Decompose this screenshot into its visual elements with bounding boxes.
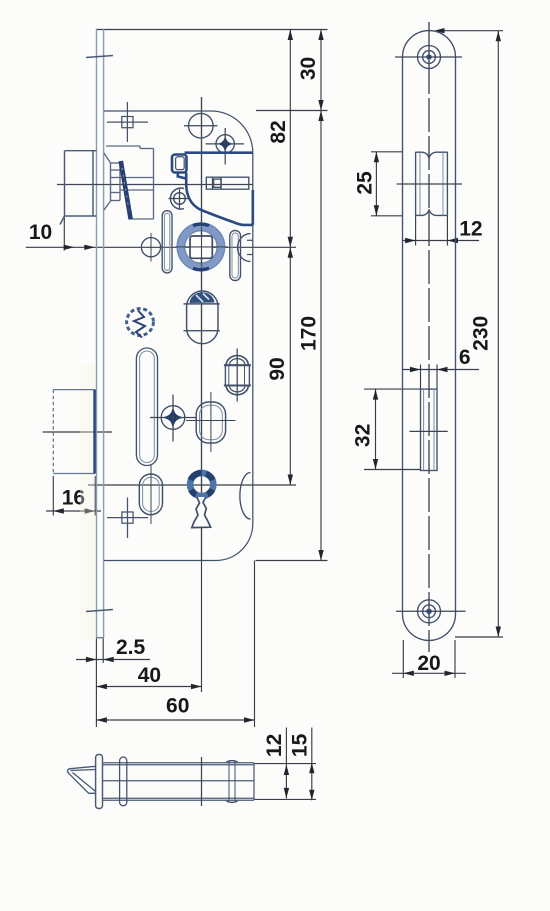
svg-text:90: 90 [266, 357, 289, 380]
svg-text:2.5: 2.5 [116, 636, 146, 659]
svg-text:20: 20 [417, 652, 440, 675]
svg-text:230: 230 [469, 316, 492, 351]
svg-text:40: 40 [138, 664, 161, 687]
svg-text:10: 10 [29, 221, 52, 244]
svg-text:32: 32 [351, 424, 374, 447]
svg-text:30: 30 [297, 57, 320, 80]
svg-text:12: 12 [459, 218, 482, 241]
svg-text:170: 170 [298, 316, 321, 351]
svg-text:60: 60 [166, 695, 189, 718]
svg-text:82: 82 [267, 120, 290, 143]
svg-text:15: 15 [289, 733, 312, 757]
svg-text:25: 25 [354, 171, 377, 195]
svg-text:12: 12 [263, 734, 286, 757]
